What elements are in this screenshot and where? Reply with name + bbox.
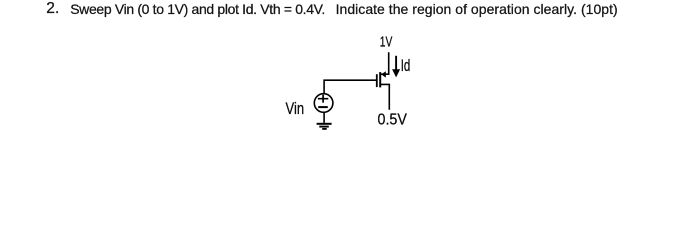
- svg-text:Vin: Vin: [286, 100, 305, 118]
- svg-text:0.5V: 0.5V: [378, 112, 408, 129]
- svg-text:1V: 1V: [380, 34, 393, 51]
- svg-text:Id: Id: [401, 57, 411, 75]
